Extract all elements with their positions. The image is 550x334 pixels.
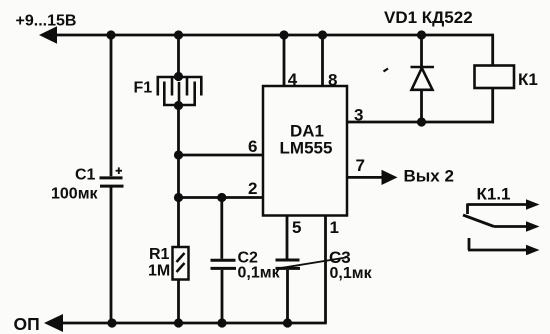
svg-text:F1: F1	[134, 80, 153, 97]
wire: pin 2 to R1	[179, 196, 264, 199]
sensor F1 (interdigitated element)	[157, 77, 203, 105]
wire: F1 to R1	[177, 106, 180, 248]
label К1	[518, 70, 538, 89]
relay contact K1.1 common line	[468, 204, 529, 215]
svg-text:VD1 КД522: VD1 КД522	[384, 8, 473, 27]
label 0,1мк (C3)	[330, 265, 373, 282]
svg-text:R1: R1	[149, 246, 170, 263]
node: rail / pin8 junction	[318, 30, 327, 39]
svg-text:1: 1	[330, 218, 339, 237]
label 0,1мк (C2)	[238, 265, 281, 282]
pin number 5	[292, 218, 301, 237]
relay coil K1	[475, 66, 515, 89]
pin number 3	[354, 106, 363, 125]
svg-text:0,1мк: 0,1мк	[330, 265, 373, 282]
wire: C1 down to common rail	[110, 188, 113, 324]
wire: rail down to C1	[110, 35, 113, 176]
node: rail / C1 junction	[106, 30, 115, 39]
op-amp timer DA1 box	[263, 86, 347, 216]
svg-text:100мк: 100мк	[51, 186, 99, 203]
pin number 7	[356, 156, 365, 175]
node: common / C1	[107, 318, 116, 327]
node: pin2 wire / C2 junction	[217, 193, 226, 202]
svg-text:4: 4	[288, 70, 298, 89]
label С3	[329, 248, 351, 267]
label VD1 КД522	[384, 8, 473, 27]
wire: top supply rail	[52, 34, 494, 37]
wire: pin 3 to VD1/K1	[346, 121, 494, 124]
wire: C2 down to common rail	[221, 270, 224, 323]
resistor R1	[173, 247, 189, 280]
capacitor C3	[276, 260, 301, 268]
node: common / R1	[174, 318, 183, 327]
output arrow Вых 2	[382, 170, 398, 185]
arrow of K1.1 lower contact	[526, 245, 540, 256]
svg-text:5: 5	[292, 218, 301, 237]
arrow of K1.1 middle contact	[526, 221, 540, 232]
svg-text:Вых 2: Вых 2	[404, 167, 454, 186]
wire: pin 7 output	[346, 176, 384, 179]
svg-text:7: 7	[356, 156, 365, 175]
pin number 1	[330, 218, 339, 237]
pin number 8	[328, 70, 337, 89]
label C1	[75, 167, 96, 184]
svg-text:8: 8	[328, 70, 337, 89]
svg-text:C1: C1	[75, 167, 96, 184]
wire: pin2 node down to C2	[220, 198, 223, 259]
svg-text:6: 6	[248, 137, 257, 156]
label C2	[238, 250, 259, 267]
label 100мк	[51, 186, 99, 203]
svg-text:3: 3	[354, 106, 363, 125]
wire: rail down to VD1	[420, 35, 423, 67]
wire: pin 5 down to C3	[286, 216, 289, 259]
wire: pin 1 down to common rail	[324, 216, 327, 324]
svg-text:LM555: LM555	[280, 139, 333, 158]
wire: rail down to F1	[177, 35, 180, 77]
node: rail / F1 junction	[174, 30, 183, 39]
relay contact K1.1 movable blade	[463, 215, 528, 227]
wire: R1 down to common rail	[177, 280, 180, 324]
svg-text:К1.1: К1.1	[477, 185, 511, 204]
node: common / C3	[283, 318, 292, 327]
power terminal arrow +9...15V	[39, 26, 57, 43]
wire: pin 8 to rail	[321, 35, 324, 86]
label Вых 2	[404, 167, 454, 186]
node: F1 bottom terminal	[174, 101, 183, 110]
diode VD1	[411, 67, 435, 90]
label R1	[149, 246, 170, 263]
label DA1	[290, 122, 324, 141]
node: pin3 / VD1 junction	[417, 117, 426, 126]
svg-text:К1: К1	[518, 70, 538, 89]
capacitor C1 (polarized)	[100, 178, 124, 186]
wire: K1 down to pin3 wire	[491, 88, 494, 123]
relay contact K1.1 lower contact	[468, 238, 528, 250]
label К1.1	[477, 185, 511, 204]
wire: pin 6 to R1	[179, 154, 264, 157]
capacitor C2	[211, 260, 237, 268]
label ОП	[14, 314, 40, 334]
pin number 4	[288, 70, 298, 89]
node: common / C2	[217, 318, 226, 327]
pin number 2	[248, 179, 257, 198]
wire: VD1 down to pin3 wire	[420, 90, 423, 122]
label 1М	[148, 263, 170, 280]
speck mark	[384, 69, 389, 72]
arrow of K1.1 common	[526, 199, 540, 210]
node: F1 top terminal	[174, 72, 183, 81]
wire: rail down to relay K1	[491, 35, 494, 66]
leader line from C3 label	[276, 258, 346, 269]
label +9...15В	[16, 13, 77, 30]
polarity plus sign of C1	[116, 167, 122, 174]
svg-text:ОП: ОП	[14, 314, 40, 334]
svg-text:0,1мк: 0,1мк	[238, 265, 281, 282]
label F1	[134, 80, 153, 97]
svg-text:+9...15В: +9...15В	[16, 13, 77, 30]
node: R1 / pin2 junction	[174, 193, 183, 202]
wire: bottom common rail	[57, 322, 327, 325]
wire: pin 4 to rail	[283, 35, 286, 86]
node: rail / VD1 junction	[417, 30, 426, 39]
svg-text:1М: 1М	[148, 263, 170, 280]
common terminal arrow ОП	[44, 314, 63, 332]
wire: C3 down to common rail	[286, 270, 289, 323]
label LM555	[280, 139, 333, 158]
node: rail / pin4 junction	[279, 30, 288, 39]
svg-text:2: 2	[248, 179, 257, 198]
pin number 6	[248, 137, 257, 156]
node: R1 / pin6 junction	[174, 150, 183, 159]
